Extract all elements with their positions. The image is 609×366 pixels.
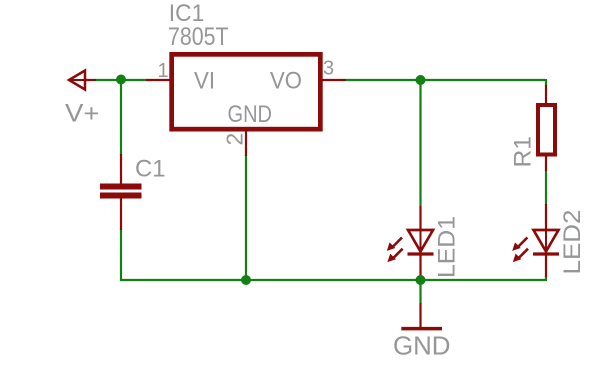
svg-text:LED2: LED2	[559, 210, 586, 275]
svg-text:7805T: 7805T	[168, 23, 229, 51]
svg-text:VO: VO	[270, 68, 302, 95]
svg-text:V+: V+	[65, 100, 100, 128]
svg-text:LED1: LED1	[434, 216, 461, 278]
svg-text:VI: VI	[194, 68, 215, 95]
svg-text:3: 3	[323, 58, 334, 80]
svg-text:GND: GND	[228, 101, 273, 128]
svg-text:C1: C1	[135, 156, 166, 183]
svg-text:2: 2	[222, 133, 248, 146]
svg-text:R1: R1	[510, 136, 537, 168]
svg-text:GND: GND	[393, 331, 451, 361]
svg-text:1: 1	[158, 60, 169, 82]
